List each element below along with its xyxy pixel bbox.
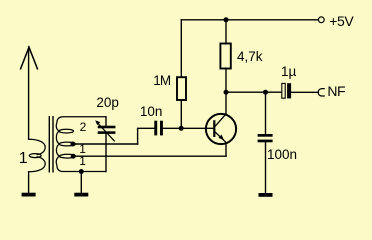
- label 100n: [267, 148, 297, 162]
- label secondary 1b: [79, 155, 86, 167]
- label 10n: [140, 105, 163, 119]
- wire 4,7k bottom riser: [225, 69, 227, 93]
- junction top rail: [224, 17, 229, 22]
- wire emitter riser: [225, 144, 227, 156]
- junction tap2: [71, 154, 76, 159]
- wire 10n right: [163, 127, 182, 129]
- secondary winding: [56, 117, 106, 172]
- wire 4,7k top riser: [225, 20, 227, 44]
- label 4,7k: [237, 50, 263, 64]
- wire collector riser: [225, 92, 227, 113]
- arrow of 20p trimmer: [95, 120, 115, 141]
- label NF: [327, 84, 345, 98]
- wire 1u to NF: [291, 91, 318, 93]
- wire secondary bottom ground riser: [80, 172, 82, 193]
- wire antenna shaft: [28, 47, 30, 139]
- label 1M: [153, 74, 170, 88]
- junction tap1: [70, 142, 75, 147]
- label secondary 2: [80, 121, 87, 133]
- terminal NF connector: [318, 89, 325, 96]
- transistor Q1: [206, 114, 236, 144]
- label 20p: [96, 96, 119, 110]
- wire tap1 to step: [73, 143, 138, 145]
- capacitor C 10n: [154, 121, 163, 136]
- wire top supply rail: [181, 19, 318, 21]
- resistor R 4,7k: [220, 44, 230, 69]
- junction 100n node: [263, 90, 268, 95]
- label primary 1: [19, 151, 28, 167]
- wire 1M bottom riser: [180, 100, 182, 128]
- label 1u: [281, 65, 296, 79]
- junction secondary bottom: [79, 169, 84, 174]
- label secondary 1a: [79, 143, 86, 155]
- capacitor C 20p variable: [98, 126, 116, 134]
- wire 100n riser: [265, 92, 267, 134]
- junction base node: [179, 126, 184, 131]
- terminal +5V: [318, 17, 324, 23]
- wire primary to ground: [28, 172, 30, 193]
- primary winding: [29, 139, 46, 172]
- wire base: [181, 127, 213, 129]
- transformer core: [49, 116, 53, 173]
- wire emitter rail to tap2: [73, 155, 226, 157]
- antenna: [20, 47, 37, 69]
- label +5V: [329, 14, 353, 28]
- capacitor C 1u electrolytic: [282, 83, 291, 98]
- wire 20p top riser: [105, 117, 107, 126]
- wire 100n to ground: [265, 142, 267, 193]
- ground primary: [22, 193, 36, 197]
- capacitor C 100n: [258, 134, 273, 142]
- wire 20p bottom riser: [105, 134, 107, 172]
- wire 10n left with step: [138, 128, 155, 144]
- wire 1M top riser: [180, 20, 182, 77]
- emitter arrowhead: [218, 135, 224, 141]
- junction collector node: [224, 90, 229, 95]
- wire collector rail to 1u: [226, 91, 282, 93]
- ground 100n: [259, 193, 273, 197]
- resistor R 1M: [177, 77, 186, 100]
- ground secondary: [74, 193, 88, 197]
